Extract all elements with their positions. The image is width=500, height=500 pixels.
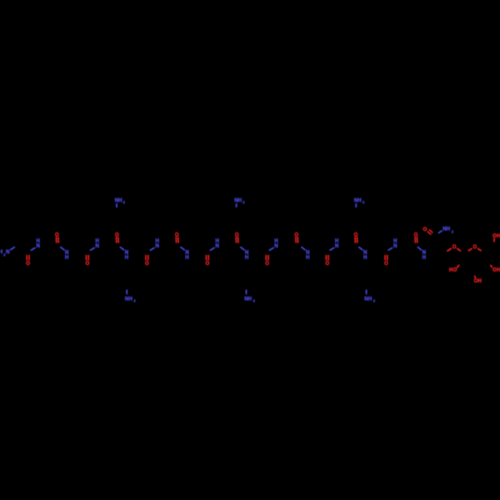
amide N-H (H above) #5 <box>269 238 278 250</box>
svg-text:O: O <box>384 261 388 267</box>
svg-text:O: O <box>452 245 456 251</box>
sugar HO (bottom left) <box>449 265 459 274</box>
svg-text:H: H <box>446 227 450 233</box>
amide N-H (H above) #6 <box>330 238 339 250</box>
amide N-H (H above) #7 <box>388 238 397 250</box>
svg-text:N: N <box>274 244 278 250</box>
amide N-H (H below) #1 <box>60 247 69 261</box>
svg-text:2: 2 <box>134 299 136 303</box>
svg-text:O: O <box>325 261 329 267</box>
amide N-H (H below) #5 <box>301 247 310 261</box>
svg-text:H: H <box>478 278 482 284</box>
amide N-H (H below) #2 <box>120 247 129 261</box>
amide N-H (H above) #1 <box>31 238 40 250</box>
svg-text:H: H <box>185 255 189 261</box>
amide N-H (H above) #2 <box>90 238 99 250</box>
svg-text:2: 2 <box>253 299 255 303</box>
svg-text:N: N <box>393 244 397 250</box>
svg-text:N: N <box>95 244 99 250</box>
svg-text:H: H <box>422 255 426 261</box>
svg-text:O: O <box>423 227 427 233</box>
lysine side-chain NH2 top #3 <box>354 198 364 208</box>
svg-text:N: N <box>6 250 10 256</box>
amide N-H (H below) #3 <box>180 247 189 261</box>
svg-text:H: H <box>358 198 362 204</box>
amide N-H (H above) #3 <box>150 238 159 250</box>
svg-text:H: H <box>238 198 242 204</box>
amide N-H (H below) #7 <box>417 247 426 261</box>
lysine side-chain NH2 top #1 <box>115 198 125 208</box>
sugar C6 OH (top right) <box>493 233 500 242</box>
svg-text:N: N <box>215 244 219 250</box>
lysine side-chain NH2 top #2 <box>234 198 244 208</box>
carbonyl O (down) #7 <box>384 255 388 267</box>
svg-text:N: N <box>335 244 339 250</box>
svg-text:N: N <box>36 244 40 250</box>
amide N-H (H above) #4 <box>210 238 219 250</box>
svg-text:H: H <box>248 297 252 303</box>
lysine side-chain NH2 bottom #1 <box>125 290 136 303</box>
svg-text:H: H <box>368 297 372 303</box>
carbonyl O (down) #2 <box>85 255 89 267</box>
carbonyl O (down) #3 <box>145 255 149 267</box>
carbonyl O (up) #3 <box>175 233 179 243</box>
lysine side-chain NH2 bottom #2 <box>244 290 255 303</box>
carbonyl O (down) #4 <box>205 255 209 267</box>
svg-text:2: 2 <box>123 200 125 204</box>
svg-text:O: O <box>453 267 457 273</box>
svg-text:2: 2 <box>373 299 375 303</box>
carbonyl O (up) #6 <box>354 233 358 243</box>
svg-text:2: 2 <box>452 230 454 234</box>
svg-text:H: H <box>125 255 129 261</box>
svg-text:2: 2 <box>243 200 245 204</box>
svg-text:O: O <box>205 261 209 267</box>
carbonyl O (down) #1 <box>26 255 30 267</box>
sugar OH (bottom middle) <box>474 276 482 285</box>
carbonyl O (up) #1 <box>55 233 59 243</box>
svg-text:O: O <box>26 261 30 267</box>
pyranose ring O <box>468 245 481 251</box>
svg-text:H: H <box>0 250 3 256</box>
svg-text:N: N <box>155 244 159 250</box>
svg-text:O: O <box>145 261 149 267</box>
carbonyl O (up) #4 <box>235 233 239 243</box>
sugar OH (bottom right) <box>490 265 500 274</box>
glycosidic ether O <box>447 245 461 252</box>
svg-text:H: H <box>65 255 69 261</box>
svg-text:O: O <box>85 261 89 267</box>
C-terminal amide O <box>423 227 433 235</box>
carbonyl O (up) #2 <box>115 233 119 243</box>
amide N-H (H below) #4 <box>240 247 249 261</box>
carbonyl O (up) #7 <box>414 233 418 243</box>
terminal amine H2N <box>0 247 15 257</box>
svg-text:H: H <box>306 255 310 261</box>
svg-text:2: 2 <box>362 200 364 204</box>
carbonyl O (up) #5 <box>295 233 299 243</box>
svg-text:O: O <box>265 261 269 267</box>
lysine side-chain NH2 bottom #3 <box>364 290 375 303</box>
svg-text:H: H <box>245 255 249 261</box>
svg-text:H: H <box>118 198 122 204</box>
C-terminal amide NH2 <box>438 227 453 234</box>
svg-text:H: H <box>129 297 133 303</box>
svg-text:H: H <box>363 255 367 261</box>
carbonyl O (down) #5 <box>265 255 269 267</box>
svg-text:O: O <box>473 245 477 251</box>
amide N-H (H below) #6 <box>359 247 368 261</box>
carbonyl O (down) #6 <box>325 255 329 267</box>
